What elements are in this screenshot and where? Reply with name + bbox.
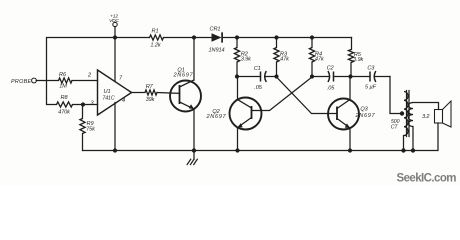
svg-text:5 µF: 5 µF [365, 84, 377, 90]
svg-text:1N914: 1N914 [209, 48, 225, 54]
svg-text:470k: 470k [58, 109, 71, 115]
wire: C3 to transformer center tap [390, 77, 401, 114]
transformer core [407, 91, 410, 137]
junction: secondary return on rail [411, 148, 415, 152]
speaker LS1 [435, 101, 452, 127]
svg-text:R7: R7 [146, 84, 154, 90]
svg-text:4: 4 [122, 98, 125, 104]
svg-text:CR1: CR1 [210, 27, 221, 33]
svg-text:39k: 39k [146, 97, 156, 103]
resistor R5 3.9k [348, 38, 364, 77]
svg-text:75k: 75k [86, 126, 96, 132]
junction: pin4 on ground rail [113, 148, 117, 152]
svg-text:2: 2 [87, 73, 92, 79]
svg-text:C1: C1 [254, 66, 261, 72]
junction: top rail at R2 [235, 35, 239, 39]
transformer T1 500 CT primary [391, 92, 408, 136]
transistor Q1 2N697 [170, 68, 201, 112]
resistor R6 1M [59, 72, 73, 90]
svg-text:SeekIC.com: SeekIC.com [397, 172, 457, 184]
svg-text:U1: U1 [104, 89, 111, 95]
op-amp U1 741C [98, 70, 132, 115]
svg-text:C3: C3 [367, 66, 375, 72]
wire: primary bottom to ground rail [403, 136, 405, 151]
wire: R8 to op-amp pin 3 [73, 104, 98, 106]
junction: top rail at R4 [310, 35, 314, 39]
wire: secondary bottom to ground rail [412, 127, 414, 151]
resistor R7 39k [145, 84, 157, 103]
node: R4/C2 (N3) [310, 74, 314, 78]
wire: R7 to Q1 base [157, 92, 180, 95]
svg-text:741C: 741C [102, 95, 114, 101]
svg-text:R1: R1 [152, 28, 159, 34]
resistor R3 47k [274, 38, 290, 77]
svg-text:.05: .05 [254, 85, 262, 91]
junction: Q1 emitter / ground node [192, 148, 196, 152]
wire: cross-coupling N3 to Q2 base [252, 77, 313, 111]
diode CR1 1N914 [209, 27, 225, 54]
probe terminal [11, 78, 59, 85]
svg-text:2N697: 2N697 [173, 72, 194, 78]
svg-text:47k: 47k [315, 56, 325, 62]
ground [187, 151, 197, 165]
resistor R2 3.9k [234, 38, 252, 77]
svg-text:2N697: 2N697 [355, 113, 376, 119]
svg-text:1M: 1M [59, 84, 67, 90]
resistor R9 75k [80, 105, 96, 151]
transistor Q3 2N697 [328, 99, 375, 130]
wire: Q1 collector to rail [193, 38, 195, 81]
svg-text:1.2k: 1.2k [150, 42, 161, 48]
resistor R8 470k [57, 95, 73, 115]
svg-text:3.2: 3.2 [422, 114, 430, 120]
junction: Q1 collector on rail [192, 35, 196, 39]
junction: primary return on rail [401, 148, 405, 152]
node: R3/C1 (N2) [274, 74, 278, 78]
wire: cross-coupling N2 to Q3 base [277, 77, 338, 114]
wire: top rail CR1 to R5 corner [223, 37, 352, 39]
svg-text:Q3: Q3 [360, 107, 368, 113]
wire: Q2 emitter to ground rail [237, 128, 239, 151]
wire: pin 4 to ground rail [114, 103, 116, 151]
wire: R6 to op-amp pin 2 [72, 80, 98, 82]
svg-text:R6: R6 [59, 72, 67, 78]
svg-text:.05: .05 [327, 86, 335, 92]
svg-text:7: 7 [119, 76, 123, 82]
capacitor C3 5uF [351, 66, 391, 91]
wire: secondary top to speaker [413, 103, 439, 110]
junction: Q2 emitter on rail [235, 148, 239, 152]
+12 VDC supply terminal [109, 13, 119, 37]
node: Q3 collector (N4) [348, 74, 352, 78]
junction: +12 rail / pin7 node [113, 35, 117, 39]
wire: op-amp output to R7 [132, 92, 146, 94]
svg-text:R8: R8 [61, 95, 69, 101]
junction: Q3 emitter on rail [348, 148, 352, 152]
svg-text:3: 3 [90, 100, 94, 106]
svg-text:47k: 47k [280, 56, 290, 62]
wire: +12V top rail (left end down to R8 feed) [47, 38, 150, 105]
svg-text:2N697: 2N697 [206, 114, 227, 120]
svg-text:C2: C2 [327, 66, 335, 72]
transformer secondary 3.2 ohm [408, 103, 430, 127]
resistor R4 47k [309, 38, 325, 77]
junction: pin3 / R9 node [81, 102, 85, 106]
wire: top rail R1 to CR1 [164, 37, 212, 39]
wire: Q1 emitter to ground rail [193, 109, 195, 151]
resistor R1 1.2k [150, 28, 164, 48]
wire: Q3 emitter to ground rail [349, 128, 351, 151]
junction: top rail at R3 [274, 35, 278, 39]
capacitor C2 .05 [312, 66, 351, 92]
svg-text:3.9k: 3.9k [241, 57, 252, 63]
svg-text:VDC: VDC [109, 18, 119, 24]
node: Q2 collector (N1) [235, 74, 239, 78]
wire: pin 7 to +12 rail [114, 38, 116, 82]
capacitor C1 .05 [237, 66, 277, 91]
wire: ground rail [83, 123, 439, 151]
junction: transformer center tap [400, 111, 404, 115]
wire: Q3 collector to N4 [349, 77, 351, 100]
svg-text:CT: CT [391, 124, 399, 130]
svg-text:3.9k: 3.9k [353, 57, 364, 63]
wire: Q2 collector to N1 [237, 77, 239, 100]
svg-text:PROBE: PROBE [11, 79, 32, 85]
transistor Q2 2N697 [206, 98, 262, 130]
